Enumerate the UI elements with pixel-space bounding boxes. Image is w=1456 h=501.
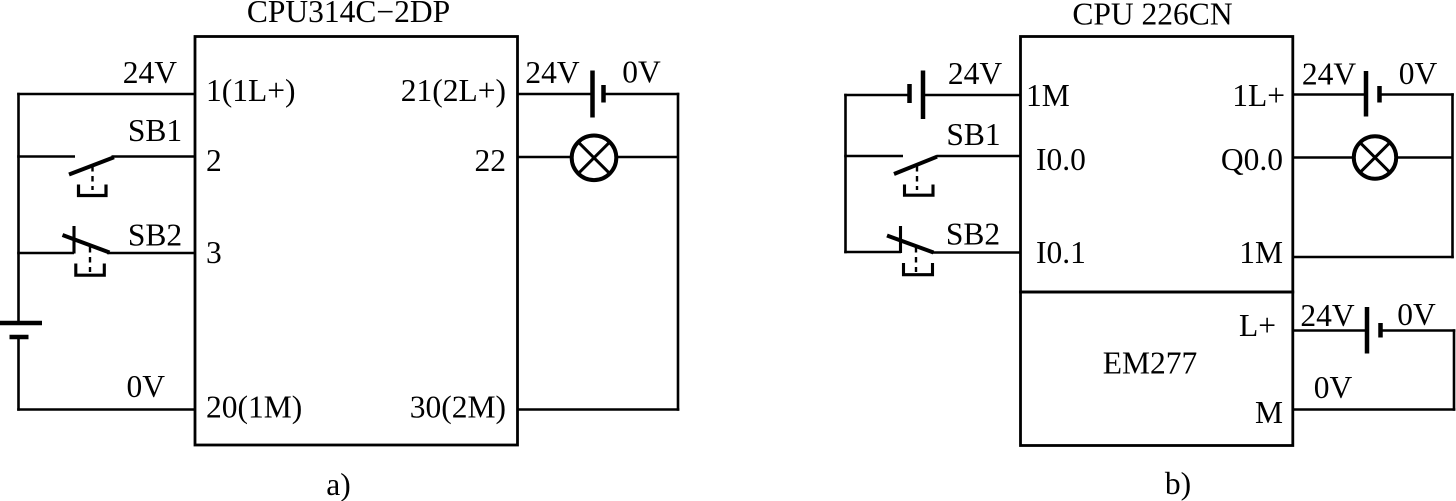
svg-text:24V: 24V: [948, 56, 1003, 91]
pushbutton SB1 cap: [79, 185, 107, 196]
module box EM277: [1021, 292, 1293, 446]
svg-text:EM277: EM277: [1103, 346, 1198, 381]
wire SB2 to pin I0.1: [933, 251, 1021, 254]
svg-text:M: M: [1255, 395, 1283, 430]
svg-text:a): a): [326, 467, 350, 501]
wire SB1 left: [17, 155, 75, 158]
battery GB3 short plate (-): [907, 84, 912, 103]
wire lamp to right bus: [616, 156, 678, 159]
svg-text:0V: 0V: [1399, 56, 1438, 91]
svg-text:21(2L+): 21(2L+): [401, 73, 506, 108]
svg-text:CPU 226CN: CPU 226CN: [1072, 0, 1232, 32]
svg-text:24V: 24V: [1302, 57, 1357, 92]
battery GB2 long plate (+): [590, 71, 595, 118]
svg-text:L+: L+: [1239, 308, 1276, 343]
wire pin Q0.0 to lamp: [1293, 156, 1355, 159]
svg-text:0V: 0V: [622, 55, 661, 90]
svg-text:0V: 0V: [127, 369, 166, 404]
pushbutton SB1 cap (b): [905, 185, 934, 196]
svg-text:I0.1: I0.1: [1036, 235, 1086, 270]
wire lamp to right bus (b): [1396, 156, 1453, 159]
battery GB2 short plate (-): [601, 85, 606, 103]
wire right bus (a): [677, 93, 680, 411]
battery GB5 short plate (-): [1378, 323, 1383, 338]
battery GB1 long plate (+): [0, 321, 42, 326]
wire pin30 to right bus: [518, 408, 680, 411]
wire pin M to EM bus: [1293, 408, 1456, 411]
wire 0V to pin20: [17, 408, 195, 411]
wire SB2 left: [17, 252, 74, 255]
wire left bus upper segment: [17, 93, 20, 323]
pushbutton SB1 actuator dashed link: [91, 166, 93, 190]
svg-text:I0.0: I0.0: [1036, 142, 1086, 177]
wire SB1 left (b): [844, 155, 903, 158]
lamp HL1 cross: [579, 142, 610, 173]
svg-text:30(2M): 30(2M): [410, 390, 506, 425]
wire SB2 to pin3: [107, 252, 195, 255]
wire SB1 to pin I0.0: [937, 155, 1021, 158]
svg-text:Q0.0: Q0.0: [1221, 142, 1283, 177]
svg-text:22: 22: [475, 143, 507, 178]
wire battery to right bus: [604, 93, 680, 96]
svg-text:2: 2: [206, 143, 222, 178]
svg-text:20(1M): 20(1M): [206, 390, 302, 425]
pushbutton SB1 blade (b): [894, 157, 937, 174]
pushbutton SB2 cap (b): [904, 263, 933, 275]
wire EM right bus: [1453, 329, 1456, 411]
svg-text:24V: 24V: [525, 55, 580, 90]
svg-text:b): b): [1165, 466, 1191, 501]
wire left bus lower segment: [17, 337, 20, 411]
wire pin 1L+ to battery: [1293, 93, 1366, 96]
battery GB4 long plate (+): [1364, 71, 1369, 117]
svg-text:1L+: 1L+: [1232, 78, 1285, 113]
wire left bus (b): [844, 94, 847, 254]
svg-text:1M: 1M: [1239, 235, 1283, 270]
svg-text:24V: 24V: [1300, 298, 1355, 333]
svg-text:SB1: SB1: [128, 113, 182, 148]
pushbutton SB1 blade (NO contact): [69, 157, 114, 174]
wire battery to pin 1M: [923, 94, 1021, 97]
svg-text:1M: 1M: [1026, 78, 1070, 113]
svg-text:24V: 24V: [123, 55, 178, 90]
PLC box U2 CPU 226CN: [1021, 37, 1293, 293]
svg-text:SB2: SB2: [128, 218, 182, 253]
wire pin21 to battery: [518, 93, 593, 96]
battery GB3 long plate (+): [921, 71, 926, 120]
battery GB5 long plate (+): [1365, 307, 1370, 354]
svg-text:0V: 0V: [1397, 297, 1436, 332]
wire pin22 to lamp: [518, 156, 573, 159]
pushbutton SB2 stop tick (b): [899, 226, 902, 253]
svg-text:1(1L+): 1(1L+): [206, 73, 296, 108]
svg-text:CPU314C−2DP: CPU314C−2DP: [247, 0, 450, 29]
pushbutton SB2 actuator dashed link (b): [915, 247, 917, 272]
pushbutton SB2 cap: [76, 264, 105, 276]
PLC box U1 CPU314C-2DP: [195, 37, 518, 446]
wire bus to battery (b): [844, 94, 908, 97]
battery GB4 short plate (-): [1377, 86, 1382, 103]
wire right bus (b): [1451, 93, 1454, 258]
pushbutton SB2 stop tick (NC): [72, 226, 75, 254]
lamp HL2 circle: [1354, 136, 1396, 178]
lamp HL1 circle: [572, 136, 617, 181]
wire SB2 left (b): [844, 251, 901, 254]
pushbutton SB2 actuator dashed link: [89, 247, 91, 272]
svg-text:3: 3: [206, 235, 222, 270]
wire 24V to pin1: [17, 93, 195, 96]
wire battery to EM bus: [1381, 329, 1456, 332]
svg-text:SB2: SB2: [946, 217, 1000, 252]
pushbutton SB2 blade (NC contact): [63, 235, 110, 253]
svg-text:0V: 0V: [1314, 370, 1353, 405]
wire battery to right bus (b): [1380, 93, 1454, 96]
pushbutton SB2 blade (b): [887, 236, 934, 253]
svg-text:SB1: SB1: [946, 117, 1000, 152]
pushbutton SB1 actuator dashed link (b): [916, 166, 918, 190]
wire pin 1M right to bus: [1293, 256, 1454, 259]
lamp HL2 cross: [1360, 143, 1390, 173]
wire pin L+ to battery (EM277): [1293, 329, 1367, 332]
battery GB1 short plate (-): [10, 335, 29, 340]
wire SB1 to pin2: [112, 155, 196, 158]
